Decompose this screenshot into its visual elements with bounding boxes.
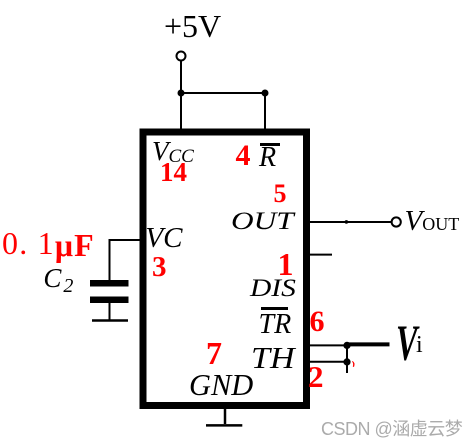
label pin number 7	[206, 337, 222, 369]
label TR-bar pin name	[259, 311, 292, 339]
label VC pin name	[145, 224, 182, 253]
label R-bar pin name	[259, 144, 276, 172]
dot on OUT wire	[345, 220, 349, 224]
label Vi input	[396, 319, 436, 364]
label pin number 2	[308, 361, 324, 392]
label pin number 1	[278, 248, 294, 280]
wire OUT pin 5	[306, 221, 391, 223]
wire to Vi input	[347, 342, 390, 346]
wire TH pin 2	[306, 361, 347, 363]
junction dot TR	[343, 342, 350, 349]
label pin number 14	[160, 159, 187, 186]
IC U1 (timer) body	[143, 132, 307, 406]
capacitor C2 bottom plate	[90, 297, 129, 304]
wire vertical link TR-TH	[346, 344, 348, 373]
wire capacitor to ground stub	[109, 303, 111, 320]
label capacitor value 0.1uF	[2, 227, 95, 259]
label GND pin name	[189, 369, 253, 400]
label pin number 3	[152, 253, 167, 282]
label pin number 4	[236, 141, 251, 171]
label pin number 5	[274, 181, 287, 207]
wire TR pin 6	[306, 344, 347, 346]
capacitor C2 top plate	[90, 280, 129, 287]
watermark CSDN	[321, 420, 462, 438]
ground bar	[206, 424, 242, 427]
label Vcc pin name	[152, 138, 194, 166]
wire DIS pin 1 stub	[306, 254, 332, 256]
ground stub from GND pin	[224, 405, 227, 424]
output terminal circle	[392, 217, 401, 226]
junction dot at pin 4 drop	[262, 90, 269, 97]
junction dot at pin 14 drop	[178, 90, 185, 97]
label pin number 6	[310, 307, 325, 337]
label +5V	[164, 10, 221, 42]
wire pin 3 VC to capacitor	[110, 240, 143, 280]
wire drop to pin 4	[264, 93, 266, 131]
junction dot TH	[343, 358, 350, 365]
label Vout	[405, 207, 460, 236]
ground bar under capacitor	[92, 319, 128, 322]
wire supply bus horizontal	[181, 92, 265, 94]
label OUT pin name	[231, 208, 294, 234]
wire from +5V terminal down to pin 14	[180, 61, 182, 131]
label TH pin name	[251, 342, 295, 373]
small red mark near TH junction	[352, 361, 355, 367]
label DIS pin name	[250, 276, 296, 301]
label capacitor C2	[43, 265, 73, 296]
+5V supply terminal	[177, 52, 186, 61]
